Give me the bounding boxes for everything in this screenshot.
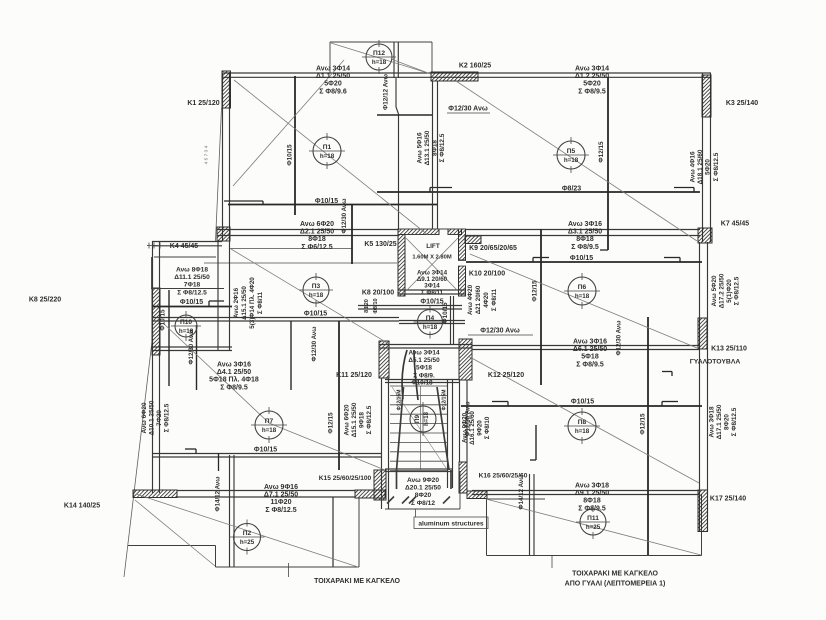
svg-text:8Φ18: 8Φ18 xyxy=(576,236,594,243)
rebar hook F8/23 left xyxy=(430,187,452,189)
lift X brace diagonal 1 xyxy=(406,238,458,291)
svg-text:Σ Φ8/9.5: Σ Φ8/9.5 xyxy=(220,384,248,391)
svg-text:Ανω 5Φ16: Ανω 5Φ16 xyxy=(417,132,424,163)
svg-text:K5 130/25: K5 130/25 xyxy=(364,241,396,248)
svg-text:Δ2.1 25/50: Δ2.1 25/50 xyxy=(300,229,334,236)
svg-text:Δ13.1 25/50: Δ13.1 25/50 xyxy=(424,130,431,165)
svg-text:Φ12/30 Ανω: Φ12/30 Ανω xyxy=(448,106,488,113)
rebar vertical x196 xyxy=(196,325,198,390)
svg-text:Ανω 3Φ14: Ανω 3Φ14 xyxy=(408,350,439,357)
svg-text:Σ Φ8/12.5: Σ Φ8/12.5 xyxy=(265,507,296,514)
svg-text:Σ Φ8/11: Σ Φ8/11 xyxy=(491,288,498,311)
svg-text:5Φ20: 5Φ20 xyxy=(705,159,712,175)
wire right exterior wall lower xyxy=(699,242,701,531)
rebar hook small room xyxy=(209,300,224,302)
svg-text:7Φ18: 7Φ18 xyxy=(184,282,201,289)
svg-text:Φ12/30 Ανω: Φ12/30 Ανω xyxy=(341,199,348,234)
panel circle P12 xyxy=(366,44,392,70)
rebar hook F8/23 right xyxy=(674,187,694,189)
svg-text:Φ10/15: Φ10/15 xyxy=(254,447,277,454)
svg-text:K2 160/25: K2 160/25 xyxy=(459,63,491,70)
svg-text:h=18: h=18 xyxy=(575,293,590,300)
rebar vertical F14/12 bottom-left double xyxy=(229,455,231,567)
svg-text:ΑΠΟ ΓΥΑΛΙ (ΛΕΠΤΟΜΕΡΕΙΑ 1): ΑΠΟ ΓΥΑΛΙ (ΛΕΠΤΟΜΕΡΕΙΑ 1) xyxy=(565,581,666,588)
svg-text:K15 25/60/25/100: K15 25/60/25/100 xyxy=(319,475,372,482)
stair thin diagonal xyxy=(392,387,446,468)
svg-text:Σ Φ8/12.5: Σ Φ8/12.5 xyxy=(713,152,720,181)
beam K17 row double xyxy=(472,490,700,492)
wall stair right outer double xyxy=(459,380,461,462)
column K5 130/25 wall right part xyxy=(448,229,462,235)
stair curved rebar 1 xyxy=(402,350,407,399)
svg-text:Σ Φ8/11: Σ Φ8/11 xyxy=(421,289,444,296)
column K3 25/140 xyxy=(702,75,711,117)
label K4 symbols xyxy=(147,245,158,247)
slab box top line left-mid xyxy=(154,256,216,258)
svg-text:Φ12/15Μ: Φ12/15Μ xyxy=(397,390,403,411)
beam stair landing bottom double xyxy=(385,379,460,381)
svg-text:Ανω 3Φ14: Ανω 3Φ14 xyxy=(575,66,609,73)
svg-text:Φ12/15: Φ12/15 xyxy=(598,141,605,163)
svg-text:5Φ18: 5Φ18 xyxy=(581,354,599,361)
svg-text:Δ11.1 25/50: Δ11.1 25/50 xyxy=(174,274,210,281)
stair curved rebar 2 xyxy=(414,350,418,400)
wire pi12 box right edge xyxy=(431,42,433,73)
diagonal panel P5 xyxy=(456,81,697,241)
svg-text:Π2: Π2 xyxy=(243,530,252,537)
wall K8 25/220 hatched xyxy=(152,288,160,355)
svg-text:Δ4.1 25/50: Δ4.1 25/50 xyxy=(217,369,251,376)
svg-text:Π3: Π3 xyxy=(312,283,321,290)
svg-text:8Φ18: 8Φ18 xyxy=(308,236,326,243)
svg-text:8Φ20: 8Φ20 xyxy=(724,414,731,430)
rebar hook P7 beam xyxy=(185,448,196,450)
svg-text:Σ Φ8/12.5: Σ Φ8/12.5 xyxy=(731,407,738,436)
svg-text:Δ20.1 25/50: Δ20.1 25/50 xyxy=(405,485,441,492)
svg-text:K17 25/140: K17 25/140 xyxy=(710,496,746,503)
svg-text:Π6: Π6 xyxy=(578,284,587,291)
wire left exterior wall upper section xyxy=(222,73,224,241)
svg-text:h=18: h=18 xyxy=(309,292,324,299)
svg-text:Ανω 3Φ18: Ανω 3Φ18 xyxy=(709,406,716,437)
aluminum structures box xyxy=(414,517,488,529)
wire bottom-left balcony step vertical xyxy=(215,546,217,568)
svg-text:aluminum structures: aluminum structures xyxy=(418,521,484,528)
wall lift shaft left hatched xyxy=(398,235,405,297)
beam K13 row double xyxy=(472,345,700,347)
stair landing edge dark xyxy=(385,468,452,470)
svg-text:K11 25/120: K11 25/120 xyxy=(336,372,372,379)
beam small room bottom xyxy=(152,346,232,348)
svg-text:5Φ20: 5Φ20 xyxy=(324,81,342,88)
leader bottom-right label xyxy=(551,556,553,568)
svg-text:K13 25/110: K13 25/110 xyxy=(711,346,747,353)
svg-text:Δ7.1 25/50: Δ7.1 25/50 xyxy=(264,492,298,499)
svg-text:Δ1.2 25/50: Δ1.2 25/50 xyxy=(575,73,609,80)
svg-text:Δ17.1 25/50: Δ17.1 25/50 xyxy=(716,404,723,439)
wall P4 right double vertical xyxy=(450,296,452,344)
svg-text:4Φ20: 4Φ20 xyxy=(483,292,490,308)
svg-text:Σ Φ8/9.6: Σ Φ8/9.6 xyxy=(319,88,347,95)
beam P4 room upper double xyxy=(358,305,462,307)
column K16 25/60 stair side xyxy=(459,462,467,493)
wall stair left double xyxy=(381,378,383,509)
beam P7 bottom double xyxy=(152,453,382,455)
wire top exterior wall double line xyxy=(223,72,711,74)
rebar line F10/15 small room xyxy=(152,306,232,308)
svg-text:Σ Φ8/12.5: Σ Φ8/12.5 xyxy=(366,405,373,434)
svg-text:Δ17.2 25/50: Δ17.2 25/50 xyxy=(719,273,726,308)
wire K4 row connector beam xyxy=(152,241,222,243)
rebar hook K13 beam right xyxy=(662,371,672,373)
diagonal panel P2 xyxy=(136,494,358,567)
beam K5-K7 double line under P5 xyxy=(465,229,700,231)
wire property boundary slant upper xyxy=(216,108,222,241)
svg-text:Ανω 2Φ16: Ανω 2Φ16 xyxy=(233,287,240,318)
svg-text:1.60M X 2.80M: 1.60M X 2.80M xyxy=(412,254,451,260)
svg-text:Φ12/15: Φ12/15 xyxy=(532,280,539,302)
svg-text:Δ15.1 25/50: Δ15.1 25/50 xyxy=(351,402,358,437)
column K4 45/45 xyxy=(217,227,230,241)
svg-text:Σ Φ8/11: Σ Φ8/11 xyxy=(257,291,264,314)
wire pi12 box left edge xyxy=(329,42,331,73)
svg-text:Φ10/15: Φ10/15 xyxy=(571,399,594,406)
svg-text:K3 25/140: K3 25/140 xyxy=(726,100,758,107)
wire bottom-right balcony top edge segment xyxy=(487,498,546,500)
svg-text:Δ15.1 25/50: Δ15.1 25/50 xyxy=(241,286,248,320)
lift X brace diagonal 2 xyxy=(406,238,458,291)
svg-text:h=25: h=25 xyxy=(586,524,601,531)
stair flight edge left xyxy=(397,387,404,470)
svg-text:Π4: Π4 xyxy=(426,315,435,322)
svg-text:5Φ18 Πλ. 4Φ18: 5Φ18 Πλ. 4Φ18 xyxy=(209,376,259,384)
svg-text:K12 25/120: K12 25/120 xyxy=(488,372,524,379)
panel circle P11 xyxy=(580,509,606,535)
panel circle P5 xyxy=(557,141,585,169)
rebar vertical F12/15 in P5 xyxy=(607,77,609,250)
rebar vertical F10/15 in P1 xyxy=(294,76,296,215)
svg-text:K4 45/45: K4 45/45 xyxy=(170,243,199,250)
svg-text:Π10: Π10 xyxy=(180,319,192,326)
panel circle P9 rotated xyxy=(410,406,436,432)
wall interior vertical double left-mid xyxy=(217,241,219,351)
rebar line F10/15 right mid xyxy=(466,261,702,263)
svg-text:Ανω 3Φ16: Ανω 3Φ16 xyxy=(217,362,251,369)
svg-text:Σ Φ8/9.5: Σ Φ8/9.5 xyxy=(578,88,606,95)
lift door gap right wall xyxy=(458,261,466,267)
panel circle P1 xyxy=(313,137,341,165)
svg-text:Φ14/12 Ανω: Φ14/12 Ανω xyxy=(518,475,525,510)
svg-text:Φ12/15: Φ12/15 xyxy=(328,412,335,434)
column K7 45/45 xyxy=(698,228,712,243)
diagonal bottom-left box xyxy=(135,500,215,566)
wall K16 hatched band xyxy=(467,491,487,499)
svg-text:Π9: Π9 xyxy=(414,414,421,423)
panel circle P8 xyxy=(568,412,596,440)
rebar hook P5 bottom xyxy=(600,249,608,251)
column K12 25/120 xyxy=(459,339,472,380)
diagonal bottom-right balcony xyxy=(486,499,701,555)
column K13 25/110 xyxy=(698,318,707,349)
rebar hook F10/15 topleft xyxy=(224,200,263,202)
rebar line F8/23 top right xyxy=(377,191,700,193)
svg-text:Φ12/30 Ανω: Φ12/30 Ανω xyxy=(465,402,472,437)
svg-text:h=18: h=18 xyxy=(424,411,430,426)
svg-text:Φ12/30 Ανω: Φ12/30 Ανω xyxy=(188,330,195,365)
svg-text:Ανω 3Φ18: Ανω 3Φ18 xyxy=(575,483,609,490)
rebar hook right-mid-b xyxy=(664,257,680,259)
beam long mid double line xyxy=(152,317,399,319)
svg-text:Ανω 3Φ14: Ανω 3Φ14 xyxy=(316,66,350,73)
svg-text:Ανω 4Φ16: Ανω 4Φ16 xyxy=(690,151,697,182)
svg-text:Φ10/15: Φ10/15 xyxy=(160,309,167,331)
slab step line P3 room xyxy=(204,262,397,264)
rebar line F10/15 top left xyxy=(228,204,437,206)
svg-text:Π11: Π11 xyxy=(587,515,599,522)
svg-text:Φ12/15Μ: Φ12/15Μ xyxy=(442,390,448,411)
diagonal P12 to K2 xyxy=(391,59,432,75)
svg-text:Ανω 3Φ16: Ανω 3Φ16 xyxy=(573,339,607,346)
wire bottom-right balcony right edge xyxy=(701,495,703,556)
svg-text:Σ Φ8/12.5: Σ Φ8/12.5 xyxy=(439,133,446,162)
svg-text:Π8: Π8 xyxy=(578,419,587,426)
stair flight edge right xyxy=(437,387,449,470)
svg-text:h=18: h=18 xyxy=(320,153,335,160)
panel circle P6 xyxy=(568,277,596,305)
svg-text:h=18: h=18 xyxy=(372,59,387,66)
rebar vertical short x218 xyxy=(218,453,220,471)
rebar hook lower-b xyxy=(662,401,678,403)
stair steps xyxy=(390,385,448,387)
wire pi12 box center rebar double vertical xyxy=(393,42,395,78)
column K9 20/65 wall stub xyxy=(465,236,481,244)
svg-text:Φ10/15: Φ10/15 xyxy=(420,299,443,306)
panel circle P4 xyxy=(418,310,443,335)
wire property boundary slant lower xyxy=(124,333,153,577)
svg-text:h=25: h=25 xyxy=(240,539,255,546)
svg-text:K1 25/120: K1 25/120 xyxy=(187,100,219,107)
svg-text:Δ1.1 25/50: Δ1.1 25/50 xyxy=(316,73,350,80)
svg-text:Φ10/15: Φ10/15 xyxy=(287,144,294,166)
svg-text:Φ12/30 Ανω: Φ12/30 Ανω xyxy=(480,328,520,335)
svg-text:Φ10/15: Φ10/15 xyxy=(570,255,593,262)
svg-text:LIFT: LIFT xyxy=(426,243,440,250)
svg-text:Φ10/18: Φ10/18 xyxy=(411,380,433,387)
diagonal panel P1 secondary xyxy=(233,60,344,186)
beam P4 room lower double xyxy=(399,320,465,322)
svg-text:Ανω 9Φ20: Ανω 9Φ20 xyxy=(407,477,439,484)
diagonal panel P1 xyxy=(234,80,428,235)
leader bottom-left label xyxy=(288,563,290,577)
svg-text:Σ Φ8/10: Σ Φ8/10 xyxy=(484,416,491,439)
column K1 25/120 xyxy=(222,71,231,108)
svg-text:h=18: h=18 xyxy=(575,428,590,435)
diagonal panel P7 xyxy=(163,323,269,423)
wire left exterior wall lower section xyxy=(152,241,154,493)
wire central wall line with jog xyxy=(395,78,397,107)
svg-text:K14 140/25: K14 140/25 xyxy=(64,503,100,510)
wire bottom-left balcony right edge xyxy=(358,498,360,567)
panel circle P7 xyxy=(255,411,283,439)
rebar vertical x169 xyxy=(168,290,170,386)
svg-text:Φ10/15: Φ10/15 xyxy=(442,302,449,324)
diagonal panel P8 xyxy=(468,356,699,483)
svg-text:Σ Φ8/9.5: Σ Φ8/9.5 xyxy=(578,505,606,512)
svg-text:Φ12/15: Φ12/15 xyxy=(640,413,647,435)
svg-text:h=18: h=18 xyxy=(423,324,438,331)
wall lift shaft right hatched xyxy=(459,229,466,260)
svg-text:Π12: Π12 xyxy=(373,50,385,57)
beam lift bottom double xyxy=(398,289,465,291)
svg-text:Σ Φ8/9.: Σ Φ8/9. xyxy=(413,372,435,379)
svg-text:ΤΟΙΧΑΡΑΚΙ ΜΕ ΚΑΓΚΕΛΟ: ΤΟΙΧΑΡΑΚΙ ΜΕ ΚΑΓΚΕΛΟ xyxy=(314,578,400,585)
svg-text:9Φ20: 9Φ20 xyxy=(477,420,484,436)
wire right exterior wall upper xyxy=(702,73,704,242)
svg-text:Σ Φ8/12: Σ Φ8/12 xyxy=(411,500,435,507)
svg-text:Π1: Π1 xyxy=(323,144,332,151)
diagonal panel P6 xyxy=(470,254,697,348)
svg-text:Φ14/12 Ανω: Φ14/12 Ανω xyxy=(215,477,222,512)
svg-text:Σ Φ8/12.5: Σ Φ8/12.5 xyxy=(177,289,207,296)
rebar vertical F12/15 x339 xyxy=(338,321,340,470)
diagonal panel P12 box xyxy=(331,43,431,74)
svg-text:Κ9 20/65/20/65: Κ9 20/65/20/65 xyxy=(469,245,517,252)
svg-text:Φ8/10: Φ8/10 xyxy=(373,298,379,313)
wire bottom-left balcony lower edge xyxy=(216,566,360,568)
rebar short line y115 xyxy=(377,114,433,116)
svg-text:Σ Φ8/12.5: Σ Φ8/12.5 xyxy=(164,403,171,432)
rebar vertical F12/15 x541 xyxy=(540,229,542,385)
panel circle P10 xyxy=(175,315,197,337)
svg-text:5(1)Φ20: 5(1)Φ20 xyxy=(726,279,733,303)
svg-text:Ανω 5Φ20: Ανω 5Φ20 xyxy=(711,275,718,306)
svg-text:Δ21 20/60: Δ21 20/60 xyxy=(475,285,482,314)
svg-text:5Φ18: 5Φ18 xyxy=(416,365,432,372)
svg-text:Κ8 20/100: Κ8 20/100 xyxy=(362,290,394,297)
wire bottom-right balcony bottom edge xyxy=(487,555,702,557)
wall stair right inner double xyxy=(447,380,449,488)
rebar hook right-mid-a xyxy=(533,257,549,259)
svg-text:11Φ20: 11Φ20 xyxy=(271,499,292,506)
svg-text:Ανω 6Φ20: Ανω 6Φ20 xyxy=(344,404,351,435)
column K5 130/25 wall left part xyxy=(398,229,439,235)
svg-text:Φ12/30 Ανω: Φ12/30 Ανω xyxy=(311,327,318,362)
stair bottom box outline xyxy=(385,508,460,510)
rebar vertical x352 xyxy=(351,204,353,264)
lift shaft outline xyxy=(399,228,465,230)
svg-text:Φ12/30 Ανω: Φ12/30 Ανω xyxy=(616,321,623,356)
column K17 25/140 xyxy=(698,490,708,532)
rebar vertical F12/15 x648 xyxy=(647,317,649,555)
rebar vertical short x536 xyxy=(535,425,537,460)
svg-text:Σ Φ8/9.5: Σ Φ8/9.5 xyxy=(571,244,599,251)
svg-text:Φ12/12 Ανω: Φ12/12 Ανω xyxy=(383,73,390,110)
slab box left edge xyxy=(151,257,153,288)
svg-text:Φ10/15: Φ10/15 xyxy=(304,311,327,318)
diagonal panel P3 xyxy=(231,249,389,344)
svg-text:Φ8/23: Φ8/23 xyxy=(562,186,581,193)
svg-text:5Φ20: 5Φ20 xyxy=(583,81,601,88)
svg-text:K8 25/220: K8 25/220 xyxy=(29,297,61,304)
beam K4-K5 double line xyxy=(217,229,399,231)
svg-text:Δ10.1 25/50: Δ10.1 25/50 xyxy=(149,400,156,435)
svg-text:ΤΟΙΧΑΡΑΚΙ ΜΕ ΚΑΓΚΕΛΟ: ΤΟΙΧΑΡΑΚΙ ΜΕ ΚΑΓΚΕΛΟ xyxy=(572,571,658,578)
svg-text:4 5 7 3 4: 4 5 7 3 4 xyxy=(204,145,210,164)
svg-text:Σ Φ6/12.5: Σ Φ6/12.5 xyxy=(301,244,332,251)
svg-text:Ανω 6Φ20: Ανω 6Φ20 xyxy=(141,402,148,433)
column K2 160/25 xyxy=(431,72,478,81)
svg-text:K10 20/100: K10 20/100 xyxy=(469,271,505,278)
svg-text:Ανω 6Φ20: Ανω 6Φ20 xyxy=(300,221,334,228)
rebar hook lower-a xyxy=(492,401,508,403)
aluminum structures leader xyxy=(415,510,417,518)
wall below K2 double vertical xyxy=(432,81,434,229)
svg-text:8Φ20: 8Φ20 xyxy=(364,299,370,313)
svg-text:h=18: h=18 xyxy=(564,157,579,164)
beam K11-K12 row double xyxy=(379,344,472,346)
svg-text:Π7: Π7 xyxy=(265,418,274,425)
svg-text:Ανω 3Φ16: Ανω 3Φ16 xyxy=(568,221,602,228)
svg-text:ΓΥΑΛΟΤΟΥΒΛΑ: ΓΥΑΛΟΤΟΥΒΛΑ xyxy=(690,359,741,366)
wall K15 hatched band xyxy=(355,490,385,498)
svg-text:8Φ20: 8Φ20 xyxy=(415,492,432,499)
svg-text:Φ10/15: Φ10/15 xyxy=(315,198,338,205)
node pi12-balcony box outline top xyxy=(330,41,432,43)
svg-text:K7 45/45: K7 45/45 xyxy=(721,221,750,228)
wire bottom-left balcony bottom edge xyxy=(128,545,216,547)
slab step line P3 room upper xyxy=(230,248,352,250)
stair walking line xyxy=(420,386,422,470)
slab box line left-mid xyxy=(151,288,224,290)
svg-text:9Φ18: 9Φ18 xyxy=(359,412,366,428)
rebar line F10/15 right lower xyxy=(461,405,702,407)
svg-text:Φ10/15: Φ10/15 xyxy=(180,299,203,306)
svg-text:Π5: Π5 xyxy=(567,148,576,155)
svg-text:5(3)Φ14 Πλ. 4Φ20: 5(3)Φ14 Πλ. 4Φ20 xyxy=(249,277,256,329)
svg-text:Ανω 9Φ16: Ανω 9Φ16 xyxy=(264,484,298,491)
svg-text:Δ9.1 25/50: Δ9.1 25/50 xyxy=(575,490,609,497)
wall K14 140/25 hatched xyxy=(133,490,177,498)
svg-text:Σ Φ8/9.5: Σ Φ8/9.5 xyxy=(576,361,604,368)
svg-text:Ανω 8Φ18: Ανω 8Φ18 xyxy=(176,267,208,274)
beam K14-K15 row double xyxy=(177,490,355,492)
svg-text:Δ6.1 25/50: Δ6.1 25/50 xyxy=(573,346,607,353)
column K15 25/60 xyxy=(374,470,386,500)
glass slash marks xyxy=(387,497,394,504)
wire bottom-right balcony left edge xyxy=(486,499,488,556)
svg-text:h=18: h=18 xyxy=(262,427,277,434)
rebar vertical F14/12 bottom-right double xyxy=(529,474,531,556)
panel circle P2 xyxy=(234,524,261,551)
wire bottom-left balcony inner vertical xyxy=(332,497,334,567)
panel circle P3 xyxy=(303,277,329,303)
svg-text:Ανω 4Φ20: Ανω 4Φ20 xyxy=(467,284,474,315)
svg-text:8Φ18: 8Φ18 xyxy=(432,140,439,156)
svg-text:7Φ20: 7Φ20 xyxy=(156,410,163,426)
svg-text:Δ18.1 25/60: Δ18.1 25/60 xyxy=(697,149,704,184)
svg-text:Δ3.1 25/50: Δ3.1 25/50 xyxy=(568,229,602,236)
svg-text:Δ5.1 25/50: Δ5.1 25/50 xyxy=(408,357,440,364)
rebar vertical x291 xyxy=(290,321,292,390)
column K11 25/120 xyxy=(379,341,389,378)
svg-text:Σ Φ8/12.5: Σ Φ8/12.5 xyxy=(734,276,741,305)
svg-text:8Φ18: 8Φ18 xyxy=(583,498,601,505)
